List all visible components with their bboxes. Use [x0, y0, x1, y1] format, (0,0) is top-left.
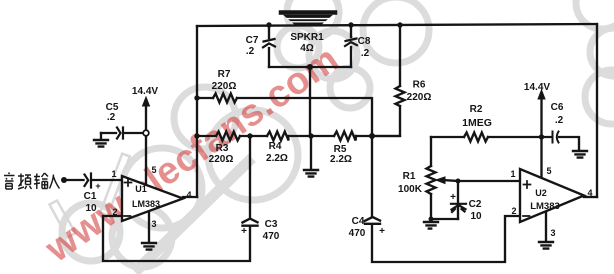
svg-text:+: +	[241, 226, 247, 237]
svg-text:2: 2	[112, 207, 117, 217]
svg-text:4: 4	[587, 188, 592, 198]
resistor R2	[464, 133, 488, 142]
wire top line	[197, 24, 597, 26]
C8 branch	[350, 25, 352, 67]
node C2 bottom	[429, 217, 434, 222]
svg-text:4Ω: 4Ω	[300, 43, 314, 54]
resistor R4	[267, 132, 289, 141]
svg-text:R7: R7	[218, 69, 231, 80]
op-amp U1	[122, 176, 183, 221]
svg-text:+: +	[450, 192, 456, 203]
svg-text:C3: C3	[265, 219, 278, 230]
C5 rail	[101, 132, 143, 134]
wire wiper to U2 pin1	[458, 180, 520, 182]
svg-text:R4: R4	[269, 141, 282, 152]
node left rail fb	[194, 133, 199, 138]
node C8 top	[348, 22, 353, 27]
node C3 top	[247, 133, 252, 138]
svg-text:+: +	[379, 226, 385, 237]
C4 branch	[372, 136, 520, 262]
ground U1 pin3	[142, 243, 156, 250]
svg-text:5: 5	[151, 165, 156, 175]
svg-text:.2: .2	[555, 115, 564, 126]
svg-text:R2: R2	[470, 104, 483, 115]
node R5 right	[369, 133, 375, 139]
wire R6 branch	[372, 25, 400, 136]
U1 pin5 wire	[145, 136, 147, 184]
svg-text:220Ω: 220Ω	[209, 154, 234, 165]
speaker box bottom	[269, 67, 351, 136]
C2 branch	[457, 181, 459, 219]
svg-text:.2: .2	[361, 48, 370, 59]
svg-text:2.2Ω: 2.2Ω	[330, 154, 352, 165]
ground R1	[424, 222, 438, 229]
svg-text:220Ω: 220Ω	[212, 81, 237, 92]
svg-text:+: +	[95, 181, 100, 191]
resistor R7	[213, 94, 237, 103]
C6 wire	[542, 137, 580, 150]
capacitor C2	[451, 204, 466, 212]
svg-text:1MEG: 1MEG	[462, 117, 492, 129]
svg-text:10: 10	[85, 203, 97, 214]
wire R1 branch	[431, 137, 458, 221]
node R6 top	[397, 22, 402, 27]
svg-text:1: 1	[111, 169, 116, 179]
svg-text:3: 3	[151, 219, 156, 229]
input wire	[66, 179, 122, 181]
wire U2 output pin 4	[584, 196, 597, 198]
node speaker bottom	[307, 64, 313, 70]
node gnd mid	[308, 133, 313, 138]
svg-text:2: 2	[511, 206, 516, 216]
node R2 C6	[539, 134, 544, 139]
svg-text:U1: U1	[135, 184, 147, 194]
svg-text:14.4V: 14.4V	[524, 82, 550, 93]
svg-text:C7: C7	[246, 35, 259, 46]
svg-text:470: 470	[263, 231, 280, 242]
svg-text:C1: C1	[84, 191, 97, 202]
potentiometer R1	[427, 166, 436, 194]
svg-text:10: 10	[470, 211, 482, 222]
node dots	[61, 22, 544, 221]
svg-text:R1: R1	[403, 171, 416, 182]
resistor R6	[396, 86, 405, 106]
svg-text:R6: R6	[413, 80, 426, 91]
svg-text:5: 5	[546, 166, 551, 176]
svg-text:LM383: LM383	[132, 199, 160, 209]
svg-text:SPKR1: SPKR1	[290, 32, 324, 43]
R2 row	[431, 136, 542, 138]
capacitor C6	[553, 132, 559, 143]
capacitor C1	[85, 174, 92, 188]
wire left vertical	[196, 26, 198, 197]
svg-text:14.4V: 14.4V	[132, 86, 158, 97]
svg-text:2.2Ω: 2.2Ω	[266, 153, 288, 164]
svg-text:220Ω: 220Ω	[407, 92, 432, 103]
C7 branch	[268, 26, 270, 67]
ground U2 pin3	[539, 242, 553, 249]
svg-text:C4: C4	[352, 216, 365, 227]
svg-text:100K: 100K	[398, 184, 423, 195]
wire R7 row	[197, 98, 372, 136]
supply arrow right 14.4V	[540, 98, 542, 134]
svg-text:3: 3	[550, 228, 555, 238]
capacitor C3	[243, 219, 258, 226]
resistor R5	[334, 132, 356, 141]
wire feedback row	[197, 135, 400, 137]
svg-text:.2: .2	[246, 46, 255, 57]
node input terminal	[61, 177, 67, 183]
label audio input chinese	[4, 173, 60, 190]
node left rail R7	[194, 95, 199, 100]
capacitor C4	[365, 217, 380, 224]
svg-text:4: 4	[186, 190, 191, 200]
C3 branch	[103, 136, 250, 261]
capacitor C8	[345, 39, 357, 47]
terminal circle C5	[143, 130, 149, 136]
wire U1 output pin 4	[183, 196, 197, 198]
resistor R3	[216, 132, 240, 141]
U1 pin3 wire	[148, 211, 150, 242]
ground mid	[310, 136, 312, 169]
svg-text:LM383: LM383	[530, 201, 560, 212]
node wiper C2	[456, 179, 461, 184]
svg-text:C2: C2	[469, 199, 482, 210]
svg-text:R3: R3	[216, 143, 229, 154]
circuit black layer	[66, 13, 597, 263]
ground C6	[573, 151, 587, 158]
capacitor C7	[263, 39, 275, 47]
node C7 top	[266, 22, 271, 27]
ground C5	[100, 133, 102, 139]
wire right vertical	[596, 24, 598, 197]
supply arrow left 14.4V	[145, 104, 147, 131]
U2 pin5 wire	[540, 137, 542, 178]
R1 wiper arrow	[443, 180, 458, 181]
svg-text:U2: U2	[535, 188, 547, 198]
speaker SPKR1	[281, 10, 335, 15]
svg-text:C6: C6	[551, 102, 564, 113]
red watermark text www.elecfans.com	[37, 38, 346, 271]
svg-text:.2: .2	[107, 112, 116, 123]
U2 pin3 wire	[545, 211, 547, 241]
svg-text:C8: C8	[358, 36, 371, 47]
svg-text:1: 1	[510, 169, 515, 179]
op-amp U2	[520, 169, 584, 222]
svg-text:470: 470	[349, 228, 366, 239]
capacitor C5	[117, 128, 123, 139]
